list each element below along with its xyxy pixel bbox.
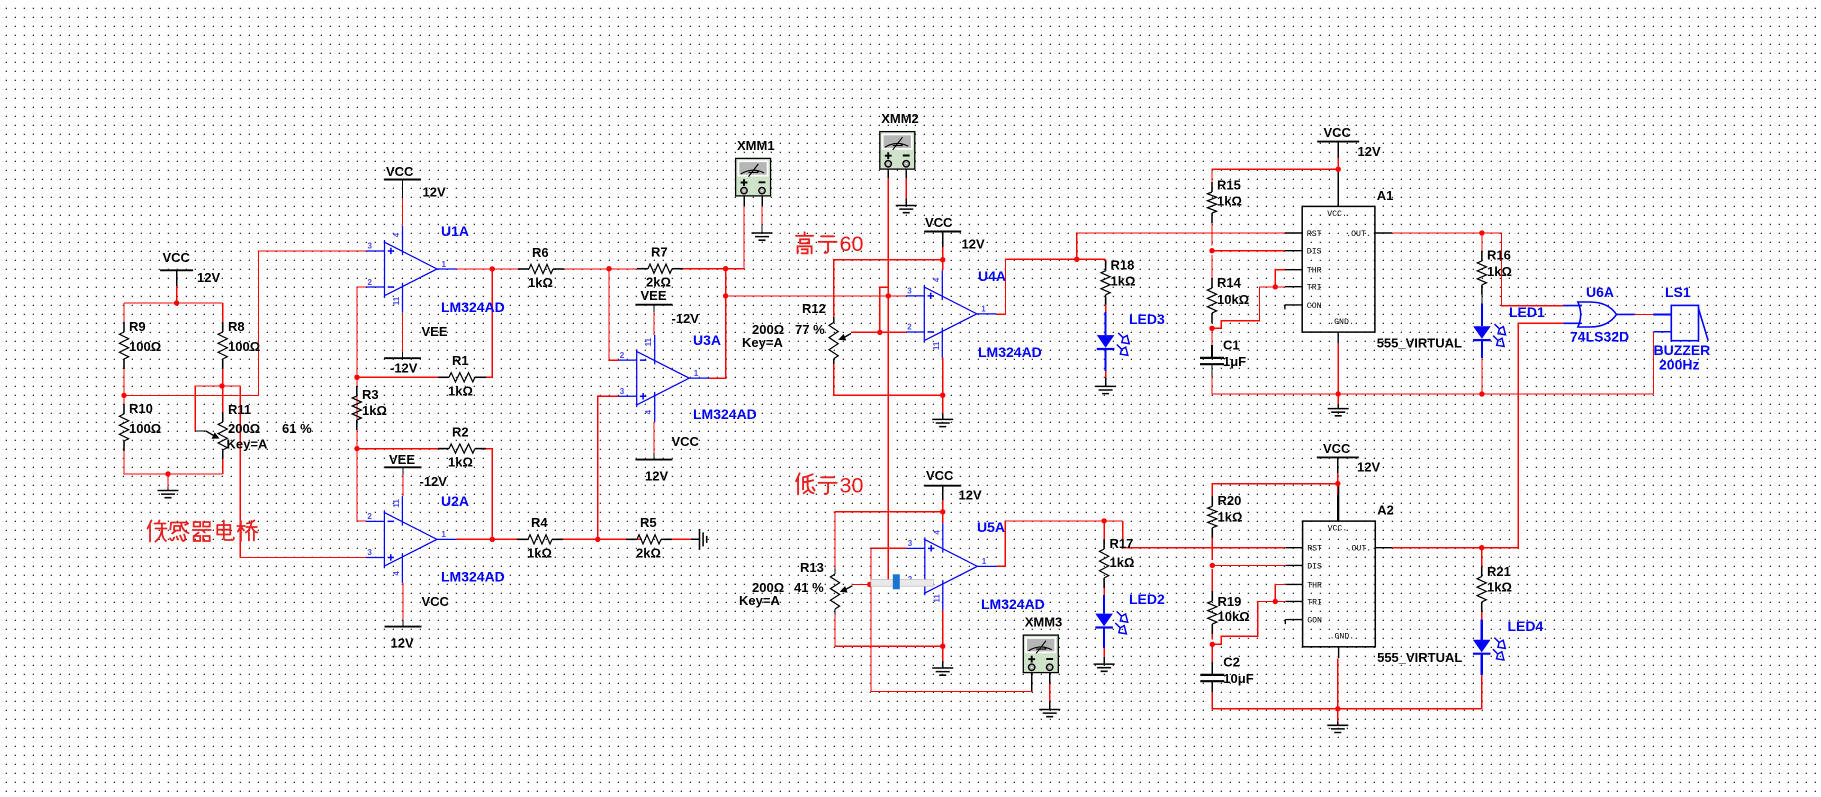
wire R6-R7 [558,268,643,270]
svg-text:.OUT.: .OUT. [1347,545,1372,554]
buzzer LS1 [1671,305,1698,340]
svg-text:LM324AD: LM324AD [693,406,757,422]
ground LED3 [1095,386,1116,393]
svg-text:74LS32D: 74LS32D [1570,329,1629,345]
svg-text:XMM2: XMM2 [881,111,919,126]
power VEE U2A [385,466,422,468]
wire [1103,657,1105,664]
svg-text:1kΩ: 1kΩ [1487,580,1512,595]
wire [1337,721,1339,725]
wire [833,359,835,364]
wire R13 wiper to U5A- [852,584,906,586]
power VCC U5A [924,485,961,487]
capacitor C2 [1200,675,1224,681]
svg-text:2: 2 [620,351,625,360]
wire [942,661,944,668]
multimeter XMM3 [1023,635,1058,673]
node R7 right [723,266,728,271]
wire R5 to ground [672,538,691,540]
wire U1A out [457,268,525,270]
resistor R9 [123,322,125,332]
wire [1337,394,1339,404]
svg-text:10kΩ: 10kΩ [1217,292,1249,307]
node A1 C1 top [1209,326,1214,331]
svg-text:-12V: -12V [672,311,700,326]
svg-text:R20: R20 [1218,493,1242,508]
potentiometer R13 [835,512,943,569]
node U5A gnd [940,644,945,649]
wire U5A+ loop [871,547,906,549]
wire [871,548,1032,691]
wire [1481,607,1483,620]
svg-text:LM324AD: LM324AD [981,596,1045,612]
wire XMM2 + lead down [887,170,889,179]
svg-text:4: 4 [932,530,941,535]
svg-text:2: 2 [368,278,373,287]
wire [653,453,655,460]
svg-text:VCC: VCC [163,250,191,265]
wire [1105,371,1107,378]
svg-text:VEE: VEE [641,288,667,303]
wire buzzer pin2 [1654,331,1672,333]
wire U3A out [709,269,726,378]
svg-text:Key=A: Key=A [742,335,783,350]
wire [1211,681,1213,692]
svg-text:1kΩ: 1kΩ [1218,510,1243,525]
wire [905,199,907,206]
svg-text:VCC: VCC [672,434,700,449]
svg-text:1μF: 1μF [1223,354,1246,369]
OR gate U6A [1563,302,1634,327]
wire [942,500,944,523]
ground XMM1 [752,233,773,240]
node A2 VCC [1335,481,1340,486]
svg-text:10μF: 10μF [1223,671,1253,686]
resistor R10 [123,404,125,414]
svg-text:555_VIRTUAL: 555_VIRTUAL [1377,335,1462,350]
wire [1211,318,1213,323]
wire [942,486,944,500]
resistor R19 [1211,591,1213,601]
ground bridge [158,491,179,498]
wire XMM1 + lead [743,196,745,206]
wire U3A- feedback [609,269,618,360]
op-amp U4A [906,271,996,358]
power VEE U3A [635,304,672,306]
wire C1 leads [1211,345,1213,358]
wire [402,180,404,199]
wire C2 leads [1211,662,1213,675]
wire LED1 cathode [1481,340,1483,358]
svg-text:10kΩ: 10kΩ [1218,609,1250,624]
node U2A out [490,537,495,542]
svg-text:11: 11 [644,337,653,346]
wire R2 [480,449,492,540]
wire [1337,142,1339,158]
svg-text:12V: 12V [959,488,982,503]
svg-text:12V: 12V [423,185,446,200]
wire LED2 anode [1103,595,1105,614]
svg-text:4: 4 [644,409,653,414]
svg-text:U1A: U1A [441,223,469,239]
svg-text:2: 2 [367,512,372,521]
wire [1049,702,1051,710]
svg-text:12V: 12V [391,636,414,651]
wire [653,312,655,335]
wire A1 OUT [1392,232,1482,234]
wire jog to XMM2 line [880,287,889,332]
svg-text:U6A: U6A [1586,284,1614,300]
wire THR/TRI jog A2 [1212,602,1285,645]
svg-text:30: 30 [840,474,864,498]
svg-text:12V: 12V [962,237,985,252]
wire XMM3 + lead [1031,673,1033,691]
wire [1337,180,1339,206]
wire [402,583,404,620]
wire LED4 to rail [1481,675,1483,709]
wire [123,359,125,414]
svg-text:R13: R13 [800,560,824,575]
wire LED3 cathode [1104,349,1106,371]
svg-text:CON: CON [1307,302,1322,311]
wire [1211,644,1213,662]
wire [222,450,224,459]
node A2 DIS [1210,563,1215,568]
resistor R16 [1481,251,1483,261]
wire [176,286,178,303]
wire U1A- feedback [357,287,366,521]
wire [402,620,404,627]
svg-text:LM324AD: LM324AD [441,569,505,585]
svg-text:R5: R5 [640,515,657,530]
svg-text:R21: R21 [1487,564,1511,579]
wire to OR top input [1482,233,1564,306]
resistor R14 [1211,278,1213,288]
svg-text:11: 11 [932,341,941,350]
svg-text:100Ω: 100Ω [129,339,161,354]
svg-text:1: 1 [442,260,447,269]
node R8/R11 [219,383,224,388]
wire R21 top [1481,548,1483,572]
node rail LED1 [1479,391,1484,396]
svg-text:60: 60 [840,232,864,256]
wire A2 OUT to OR bottom input [1482,323,1564,547]
svg-text:Key=A: Key=A [739,593,780,608]
node A1 VCC [1336,167,1341,172]
svg-text:VEE: VEE [389,452,415,467]
svg-text:TRI: TRI [1307,284,1322,293]
svg-text:R2: R2 [452,424,469,439]
wire R18 top [1105,259,1107,266]
wire to A1 RST [1077,233,1285,259]
wire U3A+ from R4/R5 [598,396,619,539]
svg-text:R18: R18 [1111,258,1135,273]
slider overlay R13 [871,574,934,589]
resistor R18 [1105,261,1107,271]
wire [887,178,889,584]
multimeter XMM2 [880,132,915,170]
node bridge left [121,393,126,398]
wire [195,386,240,431]
svg-text:4: 4 [392,232,401,237]
svg-text:VCC.: VCC. [1327,210,1347,219]
wire [1653,313,1671,315]
wire XMM3 - lead [1049,673,1051,683]
svg-text:1: 1 [441,530,446,539]
svg-text:1kΩ: 1kΩ [448,455,473,470]
wire A2 DIS [1212,564,1285,566]
svg-text:77 %: 77 % [795,322,825,337]
LED LED3 [1097,333,1129,355]
svg-text:2: 2 [907,323,912,332]
svg-text:DIS: DIS [1307,562,1322,571]
wire [905,178,907,199]
op-amp U5A [906,523,996,610]
LED LED1 [1473,324,1505,346]
svg-text:R9: R9 [129,319,146,334]
red annotation 低于30 [796,473,815,494]
svg-text:1kΩ: 1kΩ [1217,194,1242,209]
wire [1653,332,1655,394]
svg-text:U2A: U2A [441,493,469,509]
svg-text:100Ω: 100Ω [129,421,161,436]
svg-text:VCC.: VCC. [1328,525,1348,534]
svg-text:LED3: LED3 [1129,311,1165,327]
wire LED4 cathode [1481,654,1483,676]
wire [1211,364,1213,377]
wire LED4 anode [1481,620,1483,640]
svg-text:VCC: VCC [386,164,414,179]
ground R5 [700,529,707,550]
wire [1275,270,1285,287]
svg-text:.GND.: .GND. [1330,633,1355,642]
red annotation 高于60 [796,232,813,253]
wire [176,270,178,286]
node R13 VCC [940,509,945,514]
wire [1337,709,1339,722]
555 timer A2 [1285,484,1392,658]
svg-text:4: 4 [392,571,401,576]
power VCC U4A [924,231,961,233]
wire [402,467,404,475]
wire A1 GND pin [1337,344,1339,395]
svg-text:R3: R3 [362,387,379,402]
resistor R8 [222,322,224,332]
svg-text:R10: R10 [129,401,153,416]
ground U5A [932,668,953,675]
svg-text:R8: R8 [228,319,245,334]
wire VCC to R20 [1212,484,1338,501]
svg-text:R6: R6 [532,245,549,260]
svg-text:A2: A2 [1377,503,1394,518]
svg-text:41 %: 41 % [794,580,824,595]
wire [1337,473,1339,495]
wire [167,487,169,491]
resistor R17 [1103,539,1105,549]
svg-text:R14: R14 [1217,275,1242,290]
wire [123,303,125,332]
svg-text:U4A: U4A [978,268,1006,284]
wire [677,268,726,270]
wire R4-R5 [557,538,642,540]
wire ground rail A1 [1212,377,1654,394]
ground U4A [932,419,953,426]
power VCC U2A [385,626,422,628]
wire R17 top [1103,521,1105,544]
wire R1 [480,269,492,377]
wire U5A out [997,521,1123,566]
wire [402,198,404,226]
wire VCC to R15 [1212,169,1338,187]
svg-text:R7: R7 [651,245,668,260]
ground XMM3 [1039,710,1060,717]
wire bridge top [124,302,223,304]
resistor R20 [1211,496,1213,506]
svg-text:VCC: VCC [1324,125,1352,140]
svg-text:3: 3 [368,242,373,251]
wire [1049,683,1051,701]
node A1 TRI [1273,284,1278,289]
svg-text:LED1: LED1 [1509,304,1545,320]
node R4/R5 [595,537,600,542]
node R6/R7 [606,266,611,271]
svg-text:R11: R11 [228,402,251,417]
node bridge bottom [165,471,170,476]
wire [402,313,404,352]
resistor R21 [1481,567,1483,577]
wire [942,232,944,248]
wire R11 wiper to U2A+ [240,386,366,557]
power VCC U1A [384,179,421,181]
svg-text:XMM1: XMM1 [737,138,775,153]
ground A1 [1328,409,1349,416]
wire bridge left [123,441,125,474]
svg-text:Key=A: Key=A [227,437,268,452]
svg-text:1kΩ: 1kΩ [1110,555,1135,570]
svg-text:R1: R1 [452,353,469,368]
wire [1211,629,1213,639]
svg-text:1: 1 [694,369,699,378]
wire to A2 RST [1123,521,1285,548]
wire XMM1 - lead [761,196,763,206]
wire U4A out [996,259,1105,314]
wire LED2 cathode [1103,628,1105,649]
svg-text:1kΩ: 1kΩ [1111,274,1136,289]
wire R16 top [1481,233,1483,256]
svg-text:LED2: LED2 [1129,591,1165,607]
wire [1103,648,1105,657]
power VCC U3A [635,459,672,461]
wire [834,364,943,395]
svg-text:100Ω: 100Ω [228,339,260,354]
wire [402,475,404,496]
wire [1337,457,1339,473]
node A2 TRI [1273,599,1278,604]
wire THR/TRI jog A1 [1212,287,1285,328]
wire R12 wiper to U4A- [851,331,906,333]
wire signal to U4A+ [726,295,907,297]
ground LED2 [1094,664,1115,671]
svg-text:11: 11 [932,594,941,603]
node XMM2 tap [886,293,891,298]
wire A2 GND pin [1337,659,1339,709]
svg-text:200Ω: 200Ω [228,421,260,436]
svg-text:VEE: VEE [422,324,448,339]
svg-text:1: 1 [982,557,987,566]
wire [834,569,836,575]
LED LED4 [1473,638,1505,660]
op-amp U2A [366,496,456,583]
svg-text:2kΩ: 2kΩ [636,545,661,560]
wire [833,317,835,322]
node wiper jog [877,330,882,335]
svg-text:R17: R17 [1110,536,1134,551]
resistor R5 [626,538,637,540]
ground XMM2 [896,206,917,213]
svg-text:4: 4 [932,277,941,282]
svg-text:555_VIRTUAL: 555_VIRTUAL [1377,650,1462,665]
node A1 gnd rail [1336,391,1341,396]
svg-text:3: 3 [620,387,625,396]
power VEE U1A [384,357,421,359]
svg-text:R12: R12 [802,301,826,316]
wire [653,305,655,312]
svg-text:THR: THR [1307,581,1322,590]
red annotation 传感器电桥 [148,521,167,542]
wire [1337,158,1339,180]
svg-text:12V: 12V [1357,460,1380,475]
wire [653,422,655,453]
svg-text:1kΩ: 1kΩ [528,275,553,290]
node R13 wiper [867,582,872,587]
multimeter XMM1 [736,158,771,195]
wire [1211,255,1213,283]
power VCC bridge [160,269,193,271]
svg-text:LS1: LS1 [1665,284,1691,300]
svg-text:-12V: -12V [420,474,448,489]
svg-text:3: 3 [907,287,912,296]
wire [691,538,700,540]
node U3A signal [723,293,728,298]
resistor R7 [637,268,648,270]
wire U2A out [456,538,524,540]
svg-text:U3A: U3A [693,332,721,348]
node A2 OUT [1479,545,1484,550]
svg-text:.OUT.: .OUT. [1346,230,1371,239]
wire R15 down to DIS [1211,218,1213,246]
svg-text:.GND.: .GND. [1329,318,1354,327]
wire [1105,378,1107,387]
svg-text:11: 11 [392,296,401,305]
wire [222,359,224,386]
potentiometer R11 [222,386,224,412]
wire [726,206,744,269]
svg-text:DIS: DIS [1307,248,1322,257]
op-amp U1A [366,226,456,313]
555 timer A1 [1285,169,1392,343]
node R1 [354,375,359,380]
svg-text:RST: RST [1307,545,1322,554]
wire bridge out to U1A+ [122,251,366,396]
svg-text:RST: RST [1307,230,1322,239]
power VCC A2 [1317,456,1359,458]
capacitor C1 [1200,358,1224,364]
svg-text:200Hz: 200Hz [1659,357,1699,373]
svg-text:1: 1 [981,305,986,314]
wire [195,430,206,432]
node A1 OUT [1479,230,1484,235]
svg-text:LM324AD: LM324AD [978,344,1042,360]
